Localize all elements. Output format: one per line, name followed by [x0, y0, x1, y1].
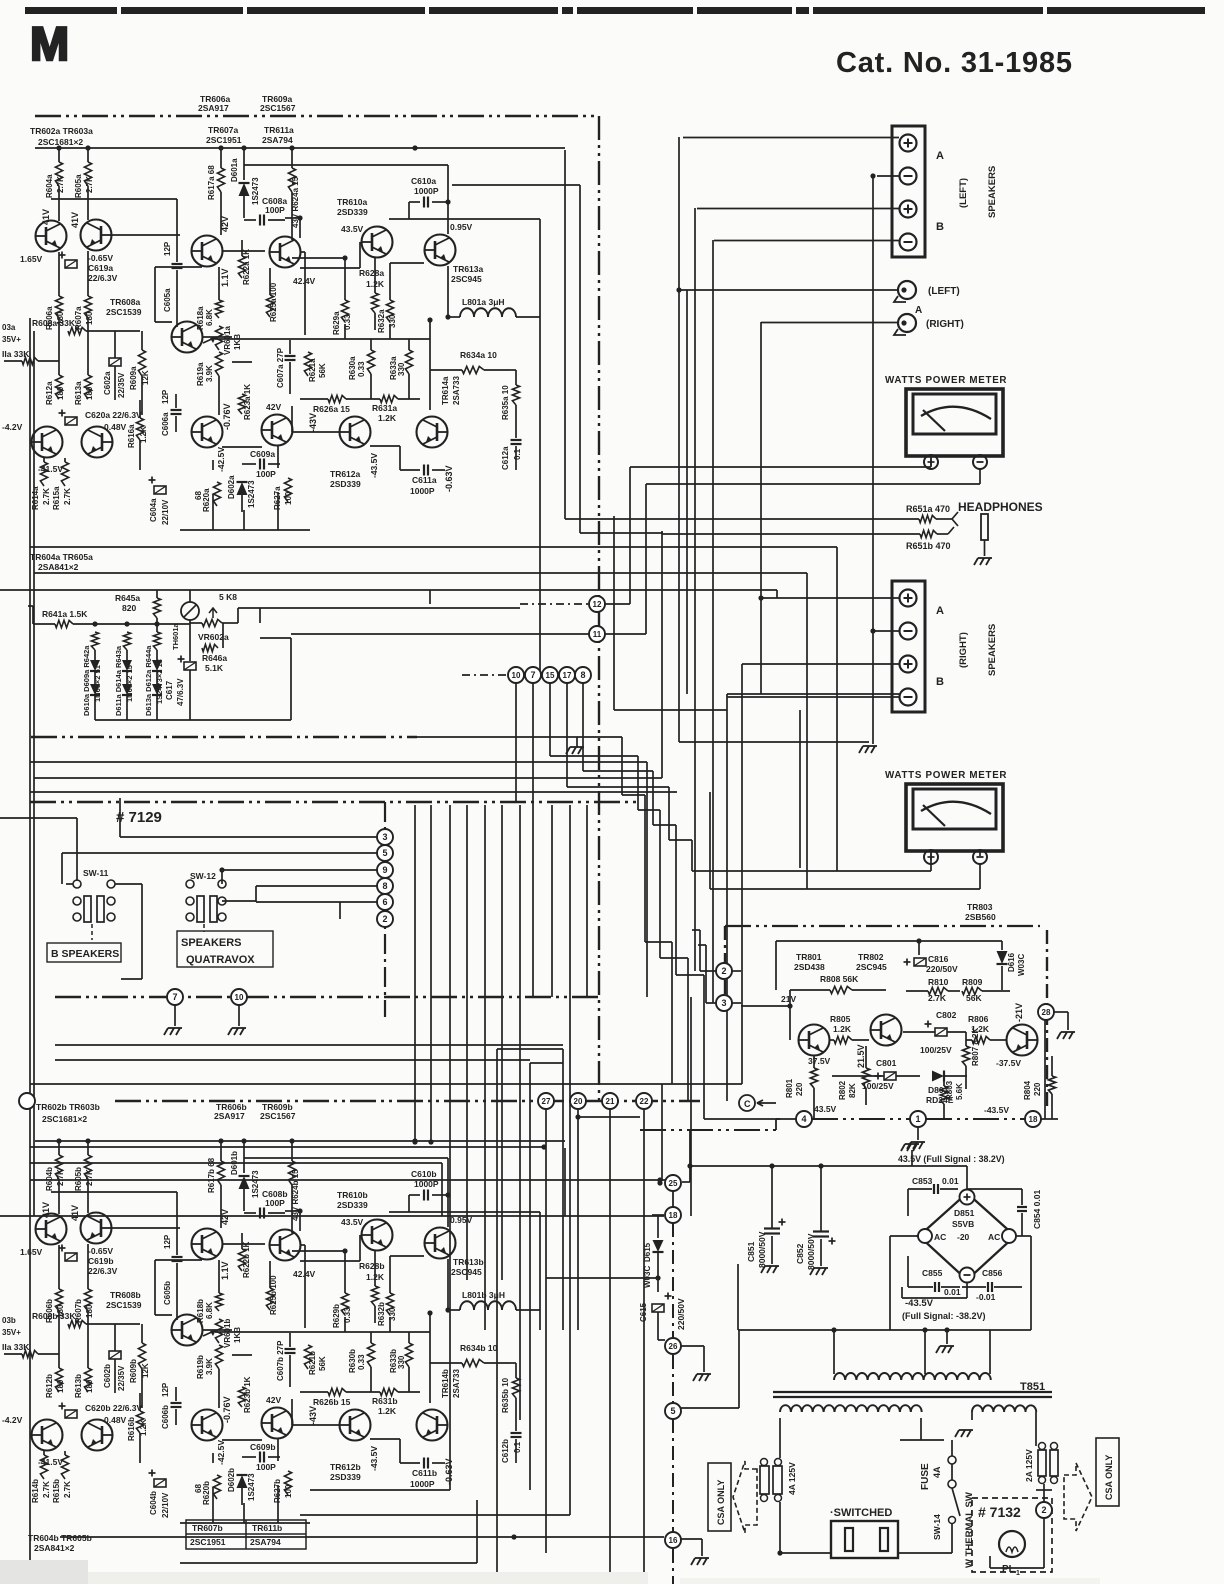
svg-text:1S2473: 1S2473 — [247, 480, 256, 508]
svg-text:R635b 10: R635b 10 — [501, 1377, 510, 1413]
diode array top rail — [73, 623, 190, 625]
speaker terminal block LEFT — [892, 126, 925, 257]
svg-text:R621a: R621a — [308, 358, 317, 382]
svg-text:R634b 10: R634b 10 — [460, 1343, 498, 1353]
svg-text:(RIGHT): (RIGHT) — [958, 632, 969, 668]
svg-text:1.2K: 1.2K — [833, 1024, 852, 1034]
svg-text:TR802: TR802 — [858, 952, 884, 962]
long wire y1060 — [55, 1059, 530, 1061]
transformer core — [773, 1391, 1052, 1393]
transistor TR605b right — [82, 1420, 114, 1451]
resistor R619b 3.9K — [215, 1345, 222, 1369]
resistor R615a 2.7K — [64, 458, 66, 462]
resistor R633a 330 — [405, 350, 412, 374]
svg-text:R634a 10: R634a 10 — [460, 350, 497, 360]
svg-text:W03C: W03C — [643, 1266, 652, 1288]
resistor R620a 68 — [213, 482, 220, 506]
svg-text:-0.63V: -0.63V — [444, 1458, 454, 1485]
svg-text:43.5V (Full Signal : 38.2V): 43.5V (Full Signal : 38.2V) — [898, 1154, 1005, 1164]
ground stub near transformer — [946, 1330, 948, 1344]
long wire into connector 16 — [60, 1536, 664, 1538]
svg-text:2SA841×2: 2SA841×2 — [38, 562, 79, 572]
svg-text:1.2K: 1.2K — [378, 413, 397, 423]
svg-text:WATTS POWER METER: WATTS POWER METER — [885, 770, 1007, 781]
resistor R630b 0.33 — [367, 1343, 374, 1367]
svg-text:R605a: R605a — [74, 174, 83, 198]
svg-text:180: 180 — [56, 386, 65, 400]
svg-text:C856: C856 — [982, 1268, 1003, 1278]
transistor lower driver — [191, 417, 223, 448]
svg-text:B SPEAKERS: B SPEAKERS — [51, 948, 119, 960]
svg-text:R629b: R629b — [332, 1304, 341, 1328]
trimmer VR601a 1KB — [215, 326, 222, 350]
svg-text:1S2473: 1S2473 — [247, 1473, 256, 1501]
svg-text:R613b: R613b — [74, 1374, 83, 1398]
dash-dot bus y1101 connectors 27 20 21 22 — [115, 1100, 700, 1103]
resistor R614a 2.7K — [43, 458, 45, 462]
speaker terminal block RIGHT — [892, 581, 925, 712]
transistor TR607b body — [191, 1229, 223, 1260]
svg-text:330: 330 — [397, 362, 406, 376]
svg-text:22/35V: 22/35V — [117, 372, 126, 398]
svg-text:-0.76V: -0.76V — [222, 403, 232, 430]
circle C with arrow — [739, 1095, 755, 1111]
svg-text:R613a: R613a — [74, 381, 83, 405]
ground connector 28 — [1067, 1012, 1069, 1030]
svg-text:0.01: 0.01 — [944, 1287, 961, 1297]
resistor R632a 330 — [386, 300, 393, 322]
svg-text:VR601b: VR601b — [223, 1319, 232, 1348]
wire to left speaker +B — [697, 208, 899, 210]
svg-text:Cat. No. 31-1985: Cat. No. 31-1985 — [836, 47, 1073, 79]
diode array bottom rail — [95, 719, 291, 721]
svg-text:TR614a: TR614a — [441, 376, 450, 405]
svg-text:R628b: R628b — [359, 1261, 385, 1271]
svg-text:(LEFT): (LEFT) — [928, 286, 960, 297]
svg-text:43.5V: 43.5V — [814, 1104, 837, 1114]
svg-text:-0.65V: -0.65V — [88, 1246, 113, 1256]
wire base row — [51, 1191, 177, 1193]
svg-text:R614a: R614a — [31, 486, 40, 510]
ground right of connector row — [566, 747, 584, 754]
svg-text:5.6K: 5.6K — [955, 1083, 964, 1100]
resistor R605a 2.7K — [87, 148, 89, 162]
svg-text:R805: R805 — [830, 1014, 851, 1024]
capacitor C604a — [154, 486, 166, 494]
center tap down — [924, 1330, 926, 1374]
svg-text:C802: C802 — [936, 1010, 957, 1020]
svg-text:R612a: R612a — [45, 381, 54, 405]
svg-text:TR612a: TR612a — [330, 469, 361, 479]
svg-text:2SC945: 2SC945 — [856, 962, 887, 972]
svg-text:R631b: R631b — [372, 1396, 398, 1406]
svg-text:C610b: C610b — [411, 1169, 437, 1179]
resistor R616b 1.2K — [136, 1411, 143, 1433]
svg-text:C609a: C609a — [250, 449, 275, 459]
svg-text:41V: 41V — [70, 1205, 80, 1221]
svg-text:FUSE: FUSE — [920, 1463, 931, 1490]
dash-dot bus y802 — [30, 801, 640, 804]
svg-text:100P: 100P — [265, 205, 285, 215]
ground headphones — [974, 558, 992, 565]
regulator top rail — [776, 940, 1002, 942]
svg-text:220/50V: 220/50V — [676, 1298, 686, 1330]
svg-text:C612a: C612a — [501, 446, 510, 470]
svg-text:C606a: C606a — [161, 412, 170, 436]
resistor R633b 330 — [405, 1343, 412, 1367]
terminal + right speakers — [900, 590, 917, 607]
svg-text:180: 180 — [85, 1304, 94, 1318]
svg-text:-43V: -43V — [308, 413, 318, 432]
svg-text:C602b: C602b — [103, 1364, 112, 1388]
svg-text:1000P: 1000P — [410, 1479, 435, 1489]
transistor second stage — [269, 237, 301, 268]
ground top of bridge — [901, 1144, 919, 1151]
ground below right column — [859, 746, 877, 753]
resistor R606b 180 — [58, 1245, 60, 1289]
svg-text:100: 100 — [284, 1484, 293, 1498]
svg-text:28: 28 — [1042, 1008, 1051, 1017]
wire 43.5V rail y1166 — [689, 1131, 691, 1182]
connector 25 — [665, 1175, 681, 1191]
svg-text:R616a: R616a — [127, 424, 136, 448]
svg-text:1KB: 1KB — [233, 1327, 242, 1343]
svg-text:35V+: 35V+ — [2, 335, 21, 344]
resistor R609b 12K — [141, 1324, 143, 1343]
svg-text:AC: AC — [988, 1232, 1000, 1242]
svg-text:15: 15 — [546, 671, 555, 680]
resistor R624a 15 — [291, 148, 293, 168]
svg-text:12: 12 — [593, 600, 602, 609]
CSA ONLY box left — [708, 1463, 731, 1531]
svg-text:PL: PL — [1002, 1564, 1015, 1575]
svg-text:4A: 4A — [932, 1466, 942, 1478]
transistor TR607a body — [191, 236, 223, 267]
vertical to ground right — [872, 176, 874, 744]
svg-text:R608b 33K: R608b 33K — [32, 1311, 76, 1321]
svg-text:16: 16 — [669, 1536, 678, 1545]
svg-text:AC: AC — [934, 1232, 946, 1242]
resistor R612b 180 — [58, 1311, 60, 1368]
svg-text:2SA917: 2SA917 — [198, 103, 229, 113]
capacitor C606b — [171, 1402, 182, 1404]
diode D602a — [237, 482, 248, 495]
svg-text:3: 3 — [721, 998, 726, 1008]
lamp PL1 — [999, 1531, 1025, 1557]
left vertical bus lines — [29, 318, 31, 1560]
svg-text:1N60×2 51: 1N60×2 51 — [93, 665, 102, 702]
resistor R625b 100 — [269, 1261, 271, 1288]
ground primary right — [971, 1412, 973, 1420]
long wire y1045 — [55, 1044, 563, 1046]
diode chain D609a D610a R642a — [91, 632, 98, 650]
svg-text:SPEAKERS: SPEAKERS — [181, 937, 242, 949]
svg-text:R612b: R612b — [45, 1374, 54, 1398]
watts power meter 1 body — [906, 389, 1003, 456]
svg-text:22/6.3V: 22/6.3V — [88, 273, 118, 283]
long wire y1084 — [30, 1083, 742, 1085]
resistor R629b 0.33 — [341, 1293, 348, 1315]
dash-dot border right vertical — [598, 116, 600, 1101]
switch wiring — [66, 883, 73, 885]
svg-text:TR610b: TR610b — [337, 1190, 368, 1200]
svg-text:180: 180 — [85, 311, 94, 325]
svg-text:R651a 470: R651a 470 — [906, 504, 950, 514]
resistor R627b 100 — [284, 1471, 291, 1495]
meter 1 needle — [923, 410, 945, 431]
internal wires — [285, 217, 300, 219]
svg-text:R806: R806 — [968, 1014, 989, 1024]
relay contact left 4A 125V — [760, 1466, 769, 1494]
svg-text:HEADPHONES: HEADPHONES — [958, 500, 1043, 514]
bridge rectifier D851 S5VB — [919, 1193, 1015, 1280]
svg-text:R620a: R620a — [202, 488, 211, 512]
svg-text:TR611a: TR611a — [264, 125, 294, 135]
svg-text:R630b: R630b — [348, 1349, 357, 1373]
long wire y762 — [30, 761, 647, 763]
meter 1 terminal + — [924, 455, 938, 469]
svg-text:R623b 1K: R623b 1K — [243, 1376, 252, 1413]
svg-text:18: 18 — [1029, 1115, 1038, 1124]
svg-text:R614b: R614b — [31, 1479, 40, 1503]
connector row 10 7 15 17 8 — [462, 674, 508, 676]
svg-text:10: 10 — [512, 671, 521, 680]
transformer primary winding right — [972, 1405, 1036, 1412]
wire 21V rail — [741, 1005, 790, 1007]
svg-text:4: 4 — [801, 1114, 806, 1124]
svg-text:D613a D612a R644a: D613a D612a R644a — [144, 645, 153, 716]
meter 2 terminal + — [924, 850, 938, 864]
svg-text:22/35V: 22/35V — [117, 1365, 126, 1391]
resistor R618b 6.8K — [218, 1260, 220, 1293]
svg-text:0.1: 0.1 — [513, 1441, 522, 1453]
svg-text:R632a: R632a — [377, 309, 386, 333]
svg-text:2: 2 — [382, 914, 387, 924]
meter 2 terminal - — [973, 850, 987, 864]
regulator dash-dot outline — [725, 925, 1040, 927]
svg-text:R609a: R609a — [129, 366, 138, 390]
top supply rail — [35, 147, 565, 149]
long wire y1147 — [30, 1146, 546, 1148]
svg-text:SW-11: SW-11 — [83, 868, 109, 878]
svg-text:2.7K: 2.7K — [42, 488, 51, 505]
transistor second stage — [269, 1230, 301, 1261]
svg-text:1000P: 1000P — [410, 486, 435, 496]
svg-text:1: 1 — [1016, 1570, 1020, 1577]
svg-text:2SC1681×2: 2SC1681×2 — [42, 1114, 87, 1124]
terminal + left speakers — [900, 135, 917, 152]
svg-text:-0.01: -0.01 — [976, 1292, 996, 1302]
right primary vertical — [1035, 1412, 1037, 1446]
resistor R623a 1K — [238, 394, 245, 414]
svg-text:6.8K: 6.8K — [205, 309, 214, 326]
transistor TR803 body — [1007, 1025, 1039, 1056]
svg-text:2SA841×2: 2SA841×2 — [34, 1543, 75, 1553]
transistor TR605a right — [82, 427, 114, 458]
svg-text:A: A — [936, 605, 944, 617]
top supply rail — [35, 1140, 565, 1142]
wire to left jack — [679, 289, 898, 291]
resistor R609a 12K — [141, 331, 143, 350]
bridge AC wires — [916, 1235, 919, 1237]
svg-text:TR614b: TR614b — [441, 1369, 450, 1398]
svg-text:12P: 12P — [163, 1234, 172, 1249]
svg-text:A: A — [936, 150, 944, 162]
long bus wire y573 — [34, 572, 612, 574]
svg-text:R622b 1K: R622b 1K — [242, 1241, 251, 1278]
transistor TR614a — [417, 417, 449, 448]
svg-text:2.7K: 2.7K — [928, 993, 947, 1003]
svg-text:L801b 3μH: L801b 3μH — [462, 1290, 505, 1300]
thermistor TH601a — [181, 602, 199, 620]
svg-text:R619a: R619a — [196, 362, 205, 386]
svg-text:R635a 10: R635a 10 — [501, 385, 510, 420]
resistor R604b 2.7K — [58, 1141, 60, 1155]
svg-text:(LEFT): (LEFT) — [958, 178, 969, 208]
svg-text:220: 220 — [795, 1082, 804, 1096]
svg-text:0.01: 0.01 — [942, 1176, 959, 1186]
wire to left speaker -A — [877, 175, 899, 177]
connector column 3 5 9 8 6 2 — [384, 802, 386, 1017]
svg-text:100P: 100P — [265, 1198, 285, 1208]
svg-text:A: A — [915, 305, 922, 316]
capacitor C620a — [65, 417, 77, 425]
resistor R651b 470 — [662, 533, 920, 535]
svg-text:R615a: R615a — [52, 486, 61, 510]
connector 28 — [1038, 1004, 1054, 1020]
resistor R621b 56K — [304, 1345, 311, 1369]
svg-text:QUATRAVOX: QUATRAVOX — [186, 954, 255, 966]
svg-text:2.7K: 2.7K — [85, 1169, 94, 1186]
svg-text:8: 8 — [382, 881, 387, 891]
svg-text:C602a: C602a — [103, 371, 112, 395]
svg-text:0.33: 0.33 — [357, 361, 366, 377]
svg-text:0.1: 0.1 — [513, 448, 522, 460]
svg-text:C851: C851 — [746, 1241, 756, 1262]
svg-text:7: 7 — [530, 670, 535, 680]
svg-text:R646a: R646a — [202, 653, 227, 663]
capacitor C602b — [109, 1351, 121, 1359]
svg-text:R607a: R607a — [74, 306, 83, 330]
svg-text:C: C — [744, 1099, 751, 1109]
wire to connector 12 — [237, 608, 239, 623]
svg-text:R604a: R604a — [45, 174, 54, 198]
svg-text:C607a 27P: C607a 27P — [276, 347, 285, 388]
wire y818 — [0, 817, 77, 819]
svg-text:820: 820 — [122, 603, 136, 613]
svg-text:WATTS POWER METER: WATTS POWER METER — [885, 375, 1007, 386]
svg-text:100: 100 — [284, 491, 293, 505]
capacitor C606a — [171, 409, 182, 411]
svg-text:B: B — [936, 676, 944, 688]
svg-text:1KB: 1KB — [233, 334, 242, 350]
grounds below connectors 7 10 — [174, 1005, 176, 1026]
svg-text:TR607b: TR607b — [192, 1523, 223, 1533]
capacitor C612a — [515, 405, 517, 438]
svg-text:R626b 15: R626b 15 — [313, 1397, 351, 1407]
svg-text:R651b 470: R651b 470 — [906, 541, 951, 551]
svg-text:R807 8.2K: R807 8.2K — [971, 1028, 980, 1066]
wire jog y590 — [429, 590, 431, 604]
svg-text:35V+: 35V+ — [2, 1328, 21, 1337]
capacitor C602a — [109, 358, 121, 366]
diode D616 W03C — [1001, 941, 1003, 950]
svg-text:R810: R810 — [928, 977, 949, 987]
svg-text:R632b: R632b — [377, 1302, 386, 1326]
svg-text:D611a D614a R643a: D611a D614a R643a — [114, 645, 123, 716]
svg-text:22/6.3V: 22/6.3V — [88, 1266, 118, 1276]
wiring 7132 — [1043, 1490, 1045, 1502]
svg-text:21.5V: 21.5V — [856, 1044, 866, 1068]
transistor TR613b — [424, 1228, 456, 1259]
svg-text:R808 56K: R808 56K — [820, 974, 859, 984]
svg-text:2SA733: 2SA733 — [452, 376, 461, 405]
svg-text:1S2473×2 18: 1S2473×2 18 — [155, 659, 164, 704]
svg-text:43V R624a 15: 43V R624a 15 — [291, 176, 300, 228]
svg-text:18: 18 — [669, 1211, 678, 1220]
svg-text:VR601a: VR601a — [223, 326, 232, 355]
svg-text:R618a: R618a — [196, 306, 205, 330]
CSA ONLY box right — [1096, 1438, 1119, 1506]
resistor R617b 68 — [220, 1141, 222, 1161]
svg-text:C604b: C604b — [149, 1491, 158, 1515]
svg-text:03b: 03b — [2, 1316, 16, 1325]
svg-text:TR613a: TR613a — [453, 264, 484, 274]
svg-text:R626a 15: R626a 15 — [313, 404, 350, 414]
diode D601a — [243, 148, 245, 180]
svg-text:100P: 100P — [256, 469, 276, 479]
resistor R622a 1K — [241, 240, 243, 256]
dash bus y1119 — [776, 1118, 796, 1120]
stair bundle from bus y802 — [414, 805, 416, 1142]
svg-text:B: B — [936, 221, 944, 233]
svg-text:0.95V: 0.95V — [450, 222, 473, 232]
svg-text:TR604a TR605a: TR604a TR605a — [30, 552, 93, 562]
capacitor C605a — [176, 259, 178, 262]
resistor R605b 2.7K — [87, 1141, 89, 1155]
svg-text:03a: 03a — [2, 323, 16, 332]
resistor R615b 2.7K — [64, 1451, 66, 1455]
resistor R607b 180 — [87, 1244, 89, 1289]
meter 1 scale arc — [921, 407, 991, 419]
svg-text:SW-14: SW-14 — [932, 1514, 942, 1540]
svg-text:2SC945: 2SC945 — [451, 274, 482, 284]
long wire y778 — [34, 777, 662, 779]
capacitor C604b — [154, 1479, 166, 1487]
transistor TR614b — [417, 1410, 449, 1441]
svg-text:7: 7 — [172, 992, 177, 1002]
svg-text:2SC1951: 2SC1951 — [206, 135, 242, 145]
svg-text:17: 17 — [563, 671, 572, 680]
svg-text:R608a 33K: R608a 33K — [32, 318, 76, 328]
dash-dot bus y997 with connectors 7 10 — [55, 996, 598, 999]
svg-text:2SD339: 2SD339 — [337, 1200, 368, 1210]
svg-text:TR604b TR605b: TR604b TR605b — [28, 1533, 92, 1543]
svg-text:TR602b TR603b: TR602b TR603b — [36, 1102, 100, 1112]
svg-text:2SB560: 2SB560 — [965, 912, 996, 922]
svg-text:R617a 68: R617a 68 — [207, 165, 216, 200]
meter 1 wires — [630, 466, 931, 468]
svg-text:22/10V: 22/10V — [161, 499, 170, 525]
meter 2 scale arc — [921, 802, 991, 814]
svg-text:56K: 56K — [318, 1356, 327, 1371]
resistor R623b 1K — [238, 1387, 245, 1407]
svg-text:2A 125V: 2A 125V — [1024, 1449, 1034, 1482]
svg-text:5: 5 — [670, 1406, 675, 1416]
connector 16 — [665, 1532, 681, 1548]
svg-text:1: 1 — [915, 1114, 920, 1124]
svg-text:TR610a: TR610a — [337, 197, 368, 207]
